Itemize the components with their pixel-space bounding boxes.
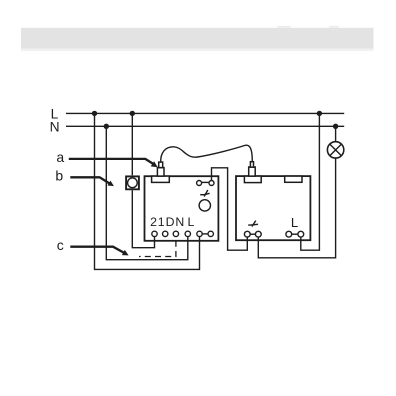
svg-text:N: N [175, 215, 184, 229]
svg-text:L: L [291, 215, 298, 230]
svg-text:D: D [166, 215, 175, 229]
svg-text:a: a [56, 149, 64, 165]
svg-text:L: L [187, 215, 194, 229]
svg-text:c: c [57, 237, 64, 253]
svg-text:2: 2 [150, 215, 157, 229]
svg-text:b: b [55, 168, 63, 184]
svg-text:N: N [50, 120, 60, 135]
svg-text:1: 1 [158, 215, 165, 229]
